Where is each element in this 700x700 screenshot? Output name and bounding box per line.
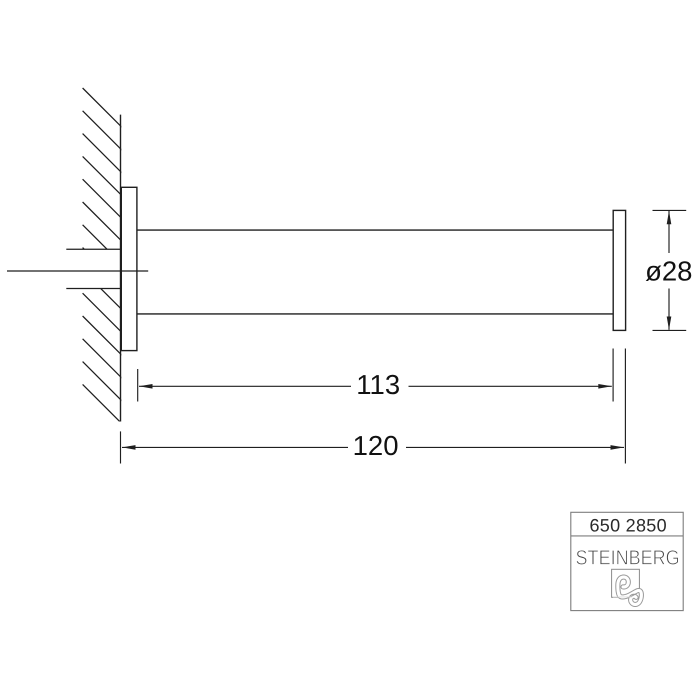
end cap (613, 210, 625, 330)
svg-text:STEINBERG: STEINBERG (576, 546, 680, 569)
bar bottom line (137, 313, 613, 315)
svg-text:ø28: ø28 (645, 255, 692, 286)
dim 113 arrow right (598, 384, 612, 389)
wall hatching (83, 88, 125, 426)
dim o28 bottom tick (653, 329, 687, 331)
logo square bottom edge seen through swirl (613, 596, 632, 598)
logo square (612, 569, 640, 597)
svg-text:120: 120 (353, 430, 399, 461)
dim 120 arrow right (611, 445, 625, 450)
wall break line lower (66, 288, 121, 290)
dim 113 extension right (612, 349, 614, 402)
dim o28 top tick (653, 209, 687, 211)
wall break line upper (66, 248, 121, 250)
dim 120 extension left (120, 431, 122, 463)
title block box (571, 512, 683, 610)
logo swirl (616, 575, 644, 606)
title block divider (571, 535, 683, 537)
bar top line (137, 229, 613, 231)
dim 120 line right (406, 446, 624, 448)
svg-text:113: 113 (356, 369, 400, 400)
dim o28 arrow down (667, 317, 672, 330)
dim 120 extension right (624, 349, 626, 464)
dim o28 line upper (668, 211, 670, 253)
dim 113 extension left (137, 369, 139, 402)
dim 120 arrow left (122, 445, 136, 450)
dim o28 arrow up (667, 211, 672, 224)
wall line (120, 115, 122, 422)
centerline (7, 270, 148, 272)
wall plate (121, 187, 137, 350)
dim 113 line right (409, 385, 612, 387)
dim 120 line left (122, 446, 348, 448)
dim 113 line left (139, 385, 351, 387)
dim o28 line lower (668, 289, 670, 330)
dim 113 arrow left (139, 384, 153, 389)
svg-text:650 2850: 650 2850 (589, 516, 666, 536)
